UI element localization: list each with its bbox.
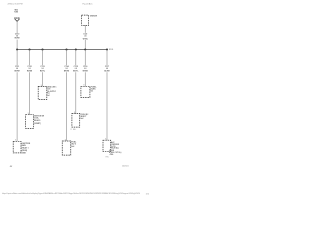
ignition switch label xyxy=(22,143,31,154)
drop wire F lower xyxy=(84,72,86,86)
wire label F xyxy=(83,66,89,72)
svg-text:BK/YL: BK/YL xyxy=(73,70,78,72)
wire generator down xyxy=(84,25,86,32)
ignition switch box (col A) xyxy=(13,141,21,153)
wire label A xyxy=(15,66,21,72)
svg-text:1.25: 1.25 xyxy=(84,36,86,38)
drop wire G lower xyxy=(106,72,108,140)
svg-text:4W: 4W xyxy=(10,165,13,168)
drop wire D lower xyxy=(66,72,68,141)
drop wire E upper xyxy=(75,50,77,66)
wire feed to bus xyxy=(16,40,18,50)
drop wire A lower xyxy=(16,72,18,141)
svg-text:BL/WH: BL/WH xyxy=(104,70,110,72)
generator U1 box xyxy=(82,15,89,25)
splice dots xyxy=(16,49,108,51)
wire label E xyxy=(73,66,78,72)
ignition coil label xyxy=(34,116,44,125)
wire label D xyxy=(64,65,70,72)
compressor label xyxy=(109,141,122,156)
drop wire G upper xyxy=(106,50,108,66)
svg-text:https://repair.alldata.com/all: https://repair.alldata.com/alldata/artic… xyxy=(2,192,140,195)
svg-text:WH/BK: WH/BK xyxy=(83,70,89,72)
drop wire B lower xyxy=(29,72,31,114)
wire label C xyxy=(40,66,45,72)
bus wire xyxy=(17,49,107,51)
svg-text:RD/BK: RD/BK xyxy=(27,70,33,72)
drop wire C upper xyxy=(42,50,44,66)
svg-text:No1: No1 xyxy=(47,95,50,97)
drop wire D upper xyxy=(66,50,68,66)
wire from fuse down xyxy=(16,21,18,33)
svg-text:COIL: COIL xyxy=(34,117,39,119)
drop wire B upper xyxy=(29,50,31,66)
fuse F1 power feed arrow symbol xyxy=(14,18,19,21)
compressor clutch box (col G) xyxy=(103,140,111,152)
injector box no1 (col F) xyxy=(81,86,90,97)
svg-text:RELAYS: RELAYS xyxy=(34,119,41,122)
data link label xyxy=(47,86,57,97)
svg-text:S201: S201 xyxy=(109,49,114,51)
wire label B xyxy=(27,66,33,72)
wire label feed xyxy=(15,34,21,40)
injector box no2 (col E) xyxy=(72,114,80,128)
wire generator to bus xyxy=(84,40,86,50)
svg-text:No1: No1 xyxy=(91,91,94,93)
ignition coil box (col B) xyxy=(26,115,34,129)
svg-text:102501: 102501 xyxy=(122,165,129,167)
svg-text:BK/WH: BK/WH xyxy=(15,70,21,72)
svg-text:2/9/24, 8:43 PM: 2/9/24, 8:43 PM xyxy=(8,3,23,5)
drop wire E lower xyxy=(75,72,77,113)
wire label generator xyxy=(83,34,88,41)
drop wire C lower xyxy=(42,72,44,86)
svg-text:1/1: 1/1 xyxy=(146,193,150,195)
svg-text:2 BL: 2 BL xyxy=(70,129,76,131)
page background xyxy=(0,0,154,200)
svg-text:No3: No3 xyxy=(71,146,74,148)
svg-text:4 BL: 4 BL xyxy=(110,153,114,156)
drop wire A upper xyxy=(16,50,18,66)
svg-text:RD/WH: RD/WH xyxy=(15,38,21,40)
data link box (col C) xyxy=(38,86,47,99)
injector no1 label xyxy=(91,87,97,93)
svg-text:(START): (START) xyxy=(34,122,41,125)
injector box no3 (col D) xyxy=(62,141,71,155)
drop wire F upper xyxy=(84,50,86,66)
svg-text:BK/RD: BK/RD xyxy=(64,70,70,72)
svg-text:RD/YL: RD/YL xyxy=(40,70,45,72)
injector no2 label xyxy=(80,114,88,120)
wire label G xyxy=(104,66,110,72)
svg-text:No2: No2 xyxy=(80,118,83,120)
injector no3 label xyxy=(71,142,76,148)
svg-text:GENERATOR: GENERATOR xyxy=(90,15,98,18)
svg-text:Fig 20 A/C: Fig 20 A/C xyxy=(83,2,93,5)
